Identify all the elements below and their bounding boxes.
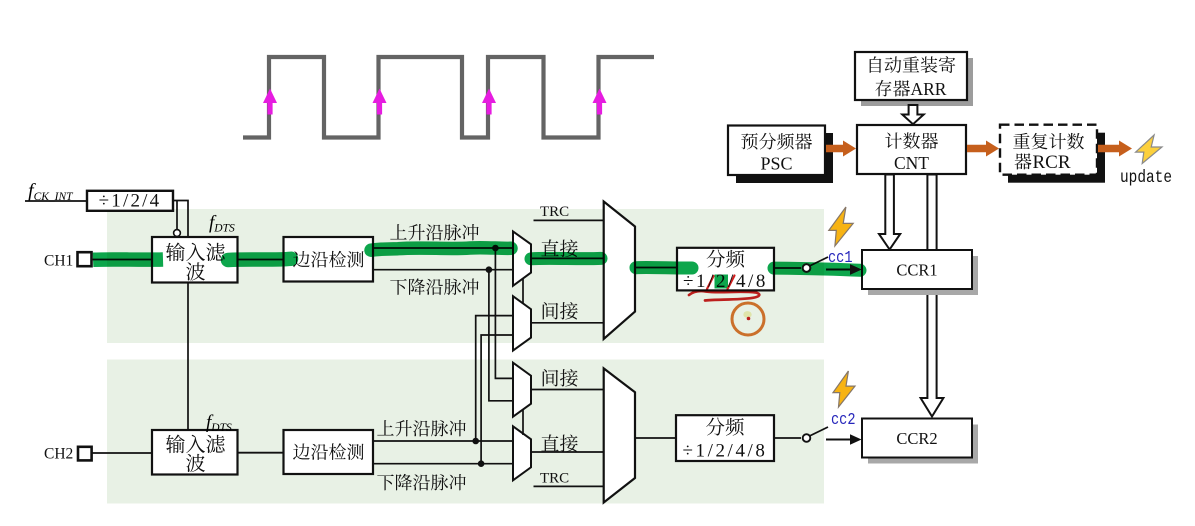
label PSC line1 bbox=[741, 133, 812, 150]
wire divider to CH1 filter clock bbox=[173, 201, 188, 238]
wire CH1 direct to big mux bbox=[531, 257, 604, 259]
wire CH2 pad to input filter bbox=[92, 452, 153, 454]
label edge-detector CH1 bbox=[293, 251, 364, 268]
junction dot CH1 rising bbox=[492, 245, 499, 252]
lightning bolt cc2 bbox=[833, 371, 855, 407]
wire big mux to divider CH2 bbox=[635, 437, 676, 439]
hollow arrow CNT to CCR1 bbox=[879, 175, 900, 250]
wire CH1 falling to CH2 indirect mux bbox=[489, 270, 513, 401]
rising-edge arrow 1 bbox=[267, 101, 272, 115]
label ARR line2 CJK bbox=[875, 80, 910, 97]
green marker highlight on digit 2 bbox=[715, 275, 729, 289]
label indirect CH2 bbox=[543, 369, 578, 387]
junction dot CH1 falling bbox=[486, 266, 493, 273]
input select mux CH2 bbox=[604, 368, 635, 502]
label edge-detector CH2 bbox=[293, 443, 364, 460]
wire mux pair connector CH1 bbox=[522, 279, 524, 304]
polarity mux CH2 direct bbox=[513, 426, 531, 480]
wire f_CK_INT underline bbox=[25, 200, 87, 202]
label RCR line1 bbox=[1013, 133, 1084, 150]
red marker slash over divider /2 bbox=[707, 276, 735, 290]
label input-filter CH2 line1 bbox=[166, 435, 225, 454]
label indirect CH1 bbox=[543, 302, 578, 320]
wire switch to CCR1 with arrowhead bbox=[826, 269, 851, 271]
junction dot CH2 falling bbox=[478, 460, 485, 467]
repetition counter RCR (dashed) bbox=[1000, 125, 1097, 175]
label ARR line1 bbox=[870, 56, 956, 73]
svg-text:CNT: CNT bbox=[894, 153, 929, 173]
rising-edge arrow 4 bbox=[597, 101, 602, 115]
label rising-edge-pulse CH1 bbox=[390, 224, 478, 240]
divider box CH2 bbox=[676, 415, 774, 461]
update event lightning bolt bbox=[1136, 135, 1162, 164]
register ARR box shadow bbox=[861, 58, 973, 106]
switch contact CH1 (over marker) bbox=[803, 264, 811, 272]
junction dot CH2 rising bbox=[472, 438, 479, 445]
label RCR line2 CJK bbox=[1015, 153, 1032, 169]
wire filter to edge-detector CH1 bbox=[238, 259, 285, 261]
wire CH1 indirect to big mux bbox=[531, 322, 604, 324]
wire big mux to divider CH1 bbox=[635, 267, 677, 269]
lightning bolt cc1 bbox=[829, 207, 853, 246]
wire CH2 rising edge pulse bbox=[373, 440, 513, 442]
input filter CH2 box bbox=[152, 430, 238, 475]
svg-text:CCR1: CCR1 bbox=[896, 261, 937, 280]
svg-text:TRC: TRC bbox=[540, 204, 569, 220]
switch contact CH2 bbox=[803, 434, 811, 442]
label divider CH2 line1 bbox=[706, 418, 744, 436]
svg-text:CH1: CH1 bbox=[44, 253, 73, 270]
polarity mux CH2 indirect bbox=[513, 363, 531, 417]
polarity mux CH1 direct bbox=[513, 231, 531, 285]
prescaler PSC bbox=[728, 126, 825, 176]
label falling-edge-pulse CH1 bbox=[390, 278, 478, 295]
register CCR1 shadow bbox=[868, 256, 978, 295]
label input-filter CH1 line1 bbox=[166, 243, 225, 262]
svg-text:RCR: RCR bbox=[1033, 152, 1071, 173]
svg-text:PSC: PSC bbox=[760, 154, 792, 174]
wire CH1 filter clock down to CH2 filter bbox=[187, 283, 189, 431]
hollow arrow ARR to CNT bbox=[902, 105, 923, 124]
svg-text:CCR2: CCR2 bbox=[896, 429, 937, 448]
switch contact CH1 bbox=[803, 264, 811, 272]
wire mux pair connector CH2 bbox=[522, 410, 524, 435]
wire PSC to CNT (orange arrow) bbox=[826, 145, 845, 153]
repetition counter RCR box shadow bbox=[1008, 133, 1105, 183]
input select mux CH1 bbox=[604, 202, 635, 339]
svg-text:ARR: ARR bbox=[911, 79, 947, 99]
divider 1/2/4 box bbox=[87, 191, 173, 211]
svg-text:CH2: CH2 bbox=[44, 445, 73, 462]
edge detector CH2 box bbox=[284, 430, 374, 474]
edge detector CH1 box bbox=[284, 237, 374, 282]
hollow arrow CNT to CCR2 bbox=[921, 175, 944, 417]
wire CH2 rising to CH1 indirect mux bbox=[476, 316, 513, 441]
pin CH2 pad bbox=[78, 447, 92, 461]
wire TRC CH1 bbox=[534, 219, 604, 221]
wire TRC CH2 bbox=[534, 485, 604, 487]
wire CH2 direct to big mux bbox=[531, 451, 604, 453]
svg-text:÷1/2/4: ÷1/2/4 bbox=[99, 191, 162, 212]
green marker highlight CH1 path bbox=[93, 252, 163, 267]
clock terminal circle bbox=[174, 230, 181, 237]
label falling-edge-pulse CH2 bbox=[377, 474, 465, 491]
rising-edge arrow 2 bbox=[377, 101, 382, 115]
register ARR (auto-reload) bbox=[855, 52, 967, 100]
label input-filter CH1 line2 bbox=[186, 262, 205, 280]
wire CH1 rising edge pulse bbox=[373, 247, 513, 249]
label direct CH1 bbox=[541, 239, 577, 257]
switch lever CH1 bbox=[810, 257, 829, 266]
register CCR1 bbox=[862, 250, 972, 289]
wire CH1 falling edge pulse bbox=[373, 269, 513, 271]
orange marker circle bbox=[732, 303, 764, 335]
wire CNT to RCR (orange arrow) bbox=[967, 145, 988, 153]
wire CH2 falling edge pulse bbox=[373, 463, 513, 465]
switch lever CH2 bbox=[810, 427, 829, 436]
svg-text:cc2: cc2 bbox=[831, 411, 856, 430]
background panel CH1 channel bbox=[107, 209, 824, 343]
wire input waveform bbox=[243, 57, 654, 138]
prescaler PSC box shadow bbox=[736, 133, 833, 183]
polarity mux CH1 indirect bbox=[513, 296, 531, 350]
background panel CH2 channel bbox=[107, 360, 824, 504]
svg-text:TRC: TRC bbox=[540, 471, 569, 487]
wire switch to CCR2 with arrowhead bbox=[826, 439, 851, 441]
wire filter to edge-detector CH2 bbox=[238, 452, 285, 454]
svg-text:÷1/2/4/8: ÷1/2/4/8 bbox=[682, 441, 767, 462]
label rising-edge-pulse CH2 bbox=[377, 420, 465, 436]
wire divider to switch CH2 bbox=[774, 437, 801, 439]
wire CH1 pad to input filter bbox=[92, 259, 153, 261]
red marker underline bbox=[689, 291, 759, 300]
label divider CH1 line1 bbox=[707, 250, 745, 268]
svg-text:update: update bbox=[1120, 168, 1172, 188]
register CCR2 shadow bbox=[868, 425, 978, 464]
divider box CH1 bbox=[677, 248, 774, 291]
rising-edge arrow 3 bbox=[486, 101, 491, 115]
input filter CH1 box bbox=[152, 237, 238, 283]
pin CH1 pad bbox=[78, 252, 92, 266]
wire CH1 rising to CH2 indirect mux bbox=[495, 248, 513, 378]
wire CH2 falling to CH1 indirect mux bbox=[481, 335, 513, 464]
wire divider to switch CH1 bbox=[774, 267, 801, 269]
wire RCR to update event (orange arrow) bbox=[1098, 145, 1121, 153]
counter CNT bbox=[857, 125, 966, 174]
register CCR2 bbox=[862, 419, 972, 458]
label input-filter CH2 line2 bbox=[186, 454, 205, 472]
label CNT line1 bbox=[885, 132, 938, 149]
label direct CH2 bbox=[541, 434, 577, 452]
wire CH2 indirect to big mux bbox=[531, 389, 604, 391]
